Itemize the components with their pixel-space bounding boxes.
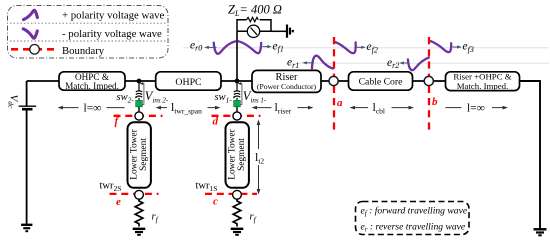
red dashed boundary at node f: [114, 115, 163, 117]
junction dot sw2 column: [137, 79, 142, 84]
ground tower 1: [231, 228, 244, 230]
sw1 green closed switch square: [234, 100, 241, 106]
label Vdc rotated: [7, 95, 20, 109]
dimension l=inf right: [446, 102, 509, 114]
battery Vdc short plate: [22, 108, 33, 111]
svg-text:Lower Tower: Lower Tower: [227, 128, 237, 179]
bottom legend box: [356, 202, 470, 235]
wave e_r1 (positive peak): [312, 56, 333, 69]
dimension l_riser: [252, 100, 314, 116]
sw2 green closed switch square: [136, 100, 143, 106]
surge source diagonal: [251, 28, 257, 35]
node a circle: [329, 76, 338, 85]
box OHPC: [156, 72, 221, 90]
label e_f3 with right arrow: [453, 45, 462, 48]
tower 2 box: [128, 122, 151, 188]
node b circle: [424, 76, 433, 85]
left wire down from main line: [26, 81, 28, 106]
svg-text:c: c: [213, 196, 218, 208]
faint guide line upper: [183, 47, 549, 49]
tower 1 box: [226, 122, 249, 188]
svg-text:+ polarity voltage wave: + polarity voltage wave: [62, 10, 165, 22]
label e_f1 with right arrow: [263, 45, 272, 48]
wave e_f3: [431, 41, 451, 52]
svg-text:l=∞: l=∞: [84, 102, 102, 114]
box OHPC & Match. Imped.: [59, 72, 125, 91]
svg-text:d: d: [213, 116, 219, 128]
node e circle: [135, 190, 144, 199]
legend boundary icon red dashed line: [11, 48, 58, 51]
node c circle: [233, 190, 242, 199]
wave e_r2: [408, 58, 429, 71]
vertical wire from source to main line: [236, 31, 238, 81]
legend box: [8, 6, 169, 59]
source loop wires: [237, 20, 271, 32]
junction dot sw1 column: [235, 79, 240, 84]
node d circle: [233, 112, 241, 120]
svg-text:OHPC: OHPC: [175, 77, 201, 88]
right-facing ground at source: [286, 25, 288, 38]
legend + polarity wave icon: [24, 10, 38, 19]
sw1 insulator squiggle: [234, 83, 240, 101]
node f circle: [135, 112, 143, 120]
ground left: [21, 224, 32, 226]
svg-text:ef : forward travelling wave: ef : forward travelling wave: [361, 206, 468, 218]
box Riser +OHPC & Match. Imped.: [446, 72, 520, 91]
svg-text:- polarity voltage wave: - polarity voltage wave: [62, 28, 162, 40]
wire battery to ground: [26, 109, 28, 224]
legend - polarity wave icon: [23, 29, 37, 38]
svg-text:l=∞: l=∞: [467, 102, 485, 114]
svg-text:er : reverse travelling wave: er : reverse travelling wave: [361, 221, 466, 233]
sw1 V_ins measurement bracket: [239, 84, 242, 105]
sw2 insulator squiggle: [136, 83, 142, 101]
svg-text:Segment: Segment: [139, 138, 149, 171]
svg-text:a: a: [337, 97, 343, 109]
legend boundary icon circle: [30, 45, 40, 55]
red dashed boundary at node d: [212, 115, 261, 117]
dimension l=inf left: [58, 102, 125, 114]
wave e_f1: [239, 41, 262, 53]
svg-text:Match. Imped.: Match. Imped.: [457, 81, 509, 91]
dimension l_t2 vertical: [255, 120, 264, 195]
source resistor zigzag: [247, 17, 259, 21]
svg-text:Match. Imped.: Match. Imped.: [65, 81, 119, 91]
sw2 V_ins measurement bracket: [141, 84, 144, 105]
right wire from last box to ground: [520, 81, 541, 229]
red dashed boundary line at node a: [333, 37, 335, 131]
ground tower 2: [133, 228, 146, 230]
wave e_f2: [335, 42, 356, 53]
battery Vdc long plate: [19, 105, 36, 107]
svg-text:(Power Conductor): (Power Conductor): [257, 82, 317, 91]
wire green square to node d: [236, 107, 238, 112]
red dashed boundary at node c: [205, 193, 257, 195]
red dashed boundary line at node b: [428, 37, 430, 131]
footing resistor rf left: [135, 199, 143, 226]
ground right: [534, 228, 547, 230]
footing resistor rf right: [233, 199, 241, 226]
box Cable Core: [349, 72, 413, 90]
dimension l_twr_span: [156, 100, 221, 116]
svg-text:Lower Tower: Lower Tower: [129, 128, 139, 179]
faint guide line lower: [286, 62, 549, 64]
box Riser (Power Conductor): [252, 70, 321, 92]
dimension l_cbl: [350, 100, 415, 116]
surge source circle U0: [247, 25, 259, 37]
svg-text:Segment: Segment: [237, 138, 247, 171]
label e_f2 with right arrow: [357, 46, 366, 49]
wire from source to right ground: [271, 30, 287, 32]
red dashed boundary at node e: [110, 193, 159, 195]
svg-text:Cable Core: Cable Core: [359, 77, 403, 88]
wave e_r0: [214, 41, 236, 53]
wire green square to node f: [138, 107, 140, 112]
svg-text:Boundary: Boundary: [62, 45, 105, 57]
svg-text:b: b: [432, 96, 438, 108]
main horizontal line: [27, 80, 540, 82]
svg-text:e: e: [116, 196, 121, 208]
